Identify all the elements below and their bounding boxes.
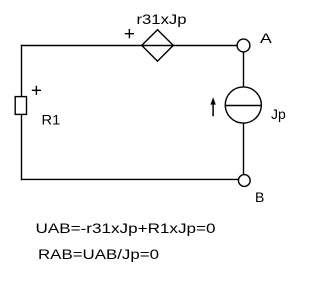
svg-text:R1: R1 xyxy=(42,112,61,128)
current source direction arrow shaft xyxy=(212,104,214,116)
svg-text:UAB=-r31xJp+R1xJp=0: UAB=-r31xJp+R1xJp=0 xyxy=(36,220,216,236)
node A terminal circle xyxy=(237,39,250,52)
svg-text:r31xJp: r31xJp xyxy=(137,11,187,27)
wire: left vertical lower segment xyxy=(21,115,23,181)
svg-text:A: A xyxy=(260,30,273,46)
wire: node A down to current source xyxy=(243,53,245,88)
current source chord line xyxy=(225,105,262,107)
svg-text:B: B xyxy=(255,189,264,205)
dependent source plus sign xyxy=(125,29,134,38)
node B terminal circle xyxy=(238,175,250,187)
current source direction arrow head xyxy=(210,97,215,104)
wire: left vertical upper segment xyxy=(21,45,23,97)
wire: bottom horizontal to node B xyxy=(21,178,238,180)
dependent source diamond xyxy=(142,30,174,61)
current source circle Jp xyxy=(225,87,261,123)
resistor R1 body xyxy=(15,97,26,115)
wire: current source down to node B xyxy=(243,124,245,175)
svg-text:RAB=UAB/Jp=0: RAB=UAB/Jp=0 xyxy=(38,246,159,262)
wire: top horizontal from left corner through diamond to node A xyxy=(21,45,237,47)
resistor R1 plus sign xyxy=(32,86,41,95)
svg-text:Jp: Jp xyxy=(271,106,286,122)
